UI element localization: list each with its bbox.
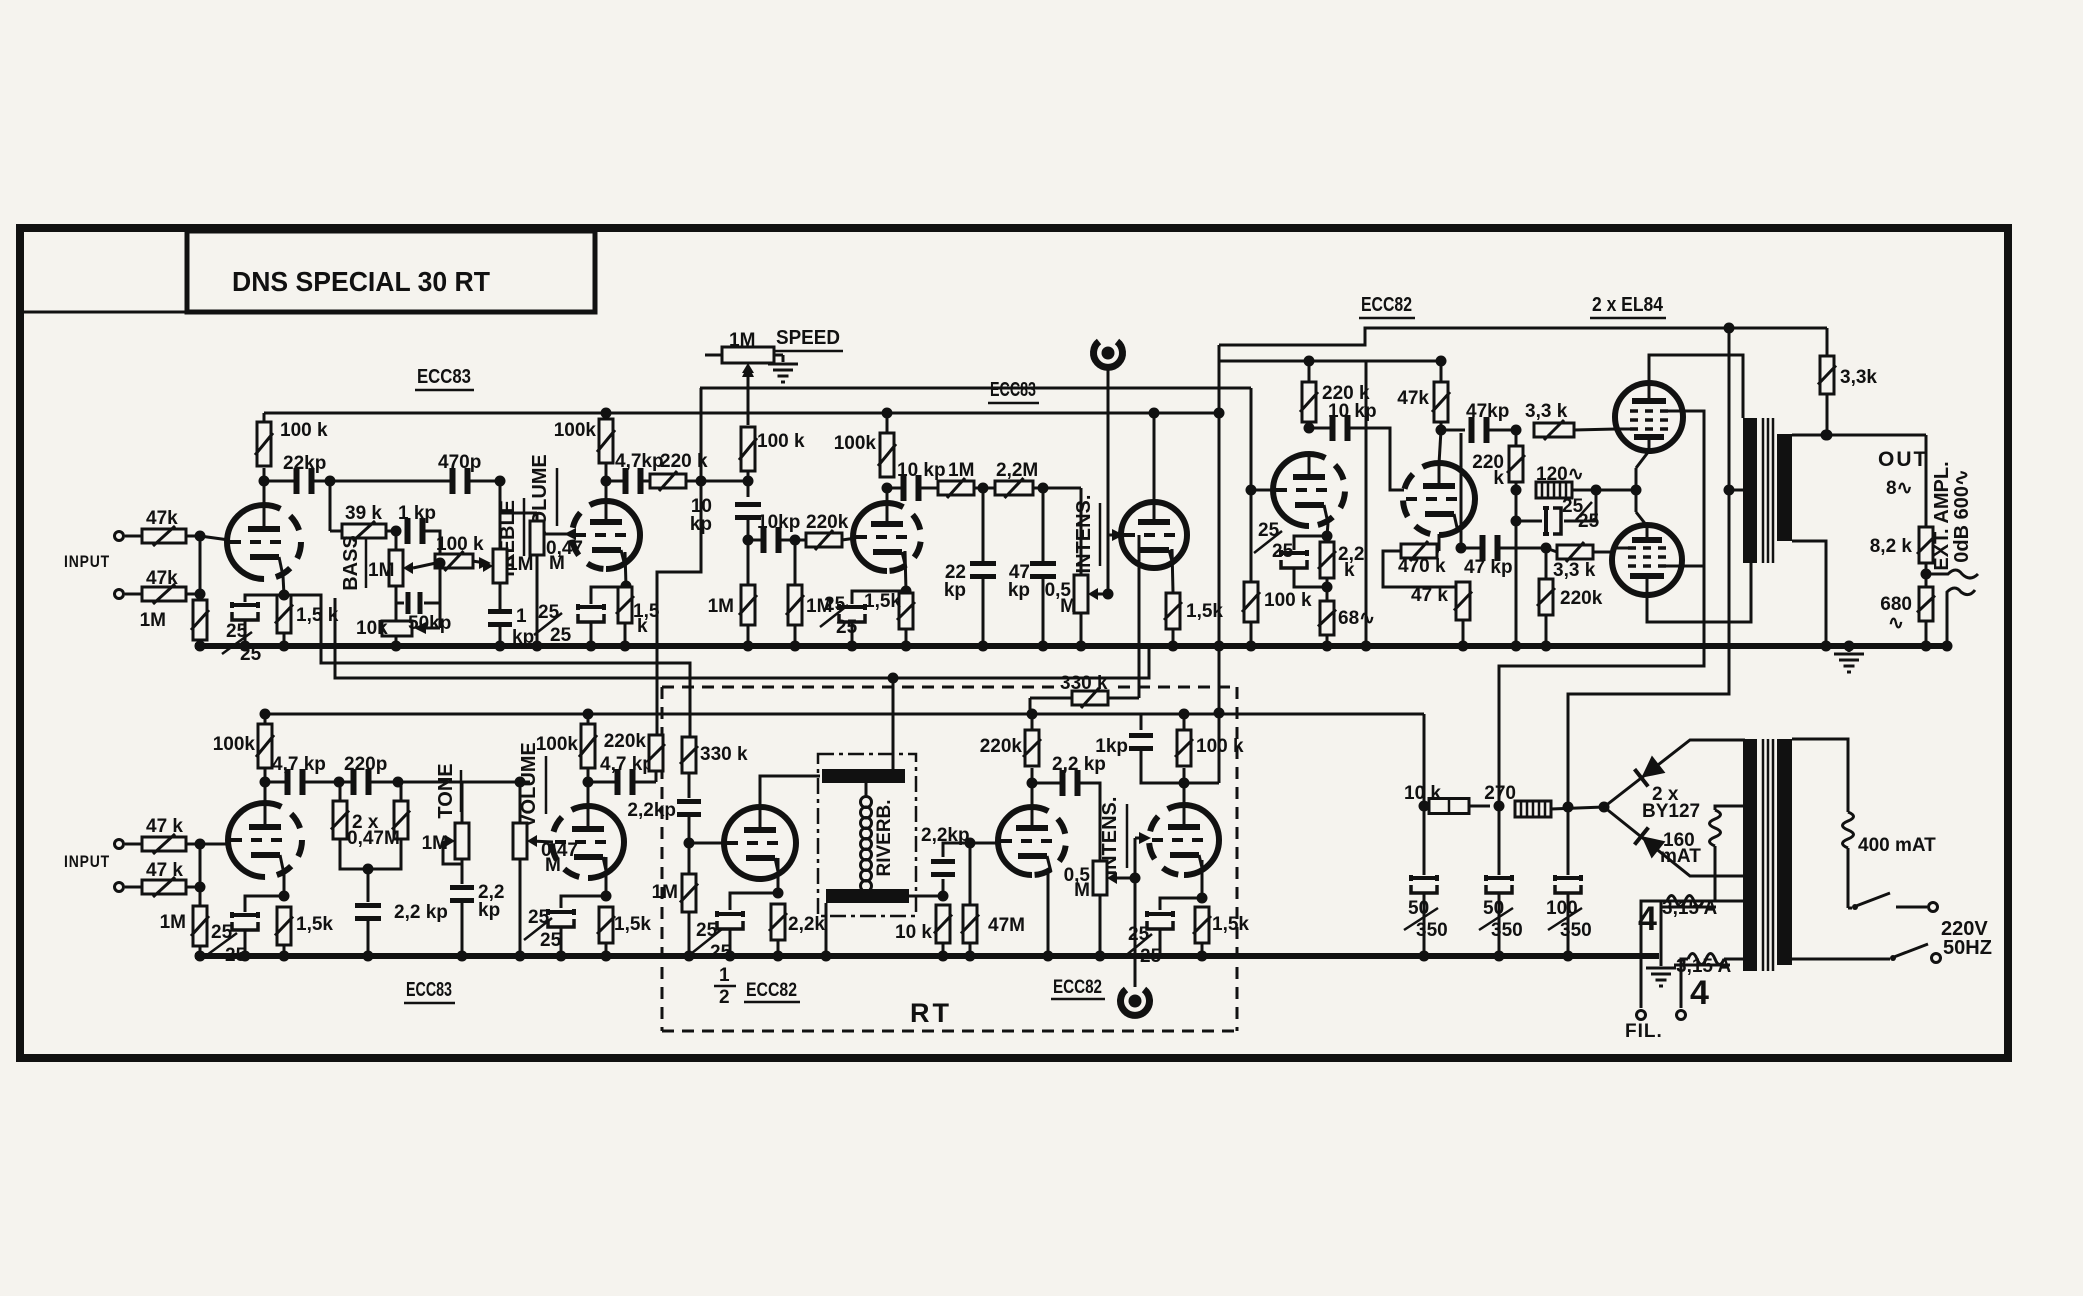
resistor 1M bbox=[920, 487, 938, 490]
svg-text:INPUT: INPUT bbox=[64, 852, 110, 871]
wire bbox=[1572, 489, 1636, 492]
resistor 47k ch1 lower bbox=[142, 584, 186, 604]
svg-text:2,2M: 2,2M bbox=[996, 460, 1038, 481]
svg-text:ECC83: ECC83 bbox=[406, 979, 452, 1001]
node bbox=[1419, 801, 1430, 812]
ext amp hook a bbox=[1926, 570, 1978, 578]
wire bbox=[1440, 422, 1443, 430]
capacitor 4,7 kp ch2 bbox=[285, 769, 306, 795]
wire secondary bottom bbox=[1792, 541, 1826, 646]
svg-text:BASS: BASS bbox=[340, 535, 362, 591]
wire bbox=[686, 480, 748, 483]
svg-text:1,5 k: 1,5 k bbox=[296, 605, 339, 626]
resistor 100k V3 plate bbox=[878, 433, 896, 477]
svg-text:1: 1 bbox=[516, 606, 527, 627]
fuse 3,15A a bbox=[1703, 900, 1745, 903]
svg-text:220k: 220k bbox=[604, 731, 647, 752]
electrolytic 25/25 V1 cathode bbox=[232, 602, 258, 620]
wire bbox=[199, 844, 202, 906]
wire V8 cathode bbox=[1327, 523, 1328, 536]
pot 0,5M INTENS ch2 bbox=[1093, 861, 1107, 895]
electrolytic 25/25 V7 bbox=[1160, 898, 1202, 910]
resistor 2,2k V5 cathode bbox=[769, 904, 787, 940]
svg-text:1M: 1M bbox=[368, 560, 394, 581]
svg-text:1M: 1M bbox=[140, 610, 166, 631]
pot TONE 1M bbox=[461, 782, 464, 822]
terminal FIL a bbox=[1637, 1011, 1646, 1020]
wire bbox=[304, 781, 339, 784]
svg-text:120∿: 120∿ bbox=[1536, 464, 1584, 485]
wire bbox=[1545, 615, 1548, 646]
wire bbox=[125, 886, 142, 889]
svg-text:1kp: 1kp bbox=[1095, 736, 1128, 757]
wire bbox=[1383, 551, 1460, 587]
capacitor 50/350 a bbox=[1423, 806, 1426, 875]
resistor 1,5k V4 cathode bbox=[1164, 593, 1182, 629]
svg-text:47k: 47k bbox=[146, 568, 178, 589]
tube V1 ECC83 ch1 input bbox=[227, 505, 264, 579]
wire to V7 grid bbox=[1134, 838, 1137, 878]
wire bbox=[1172, 629, 1175, 646]
resistor 1,5k V2 cathode bbox=[616, 587, 634, 623]
svg-text:kp: kp bbox=[478, 900, 500, 921]
wire INTENS wiper bbox=[1111, 877, 1135, 880]
diode BY127 upper bbox=[1604, 740, 1745, 807]
input jack terminal ch2 upper bbox=[115, 840, 124, 849]
svg-text:k: k bbox=[637, 616, 648, 637]
svg-text:4: 4 bbox=[1638, 900, 1657, 938]
capacitor 50/350 b bbox=[1498, 806, 1501, 875]
capacitor 470p bbox=[450, 468, 471, 494]
wire 470p line bbox=[330, 480, 450, 483]
wire bbox=[1159, 929, 1162, 956]
electrolytic 25/25 V2 cathode bbox=[591, 587, 626, 604]
wire bbox=[1183, 714, 1186, 730]
svg-text:4,7 kp: 4,7 kp bbox=[600, 754, 654, 775]
wire bbox=[1099, 895, 1102, 956]
resistor 100k ch2-V1 plate bbox=[256, 724, 274, 768]
resistor 47 k V9 lower bbox=[1454, 582, 1472, 620]
pot 0,5M INTENS ch1 bbox=[1080, 488, 1083, 576]
svg-text:25: 25 bbox=[824, 594, 846, 615]
svg-text:47kp: 47kp bbox=[1466, 401, 1509, 422]
capacitor 47kp upper bbox=[1441, 429, 1465, 432]
svg-text:47M: 47M bbox=[988, 915, 1025, 936]
wire volume tap bbox=[500, 512, 537, 515]
wire long link b bbox=[335, 598, 1149, 678]
svg-text:330 k: 330 k bbox=[700, 744, 748, 765]
wire bbox=[1925, 435, 1928, 527]
wire bbox=[605, 943, 608, 956]
svg-text:47 k: 47 k bbox=[1411, 585, 1448, 606]
resistor 47k ch1 upper bbox=[142, 526, 186, 546]
wire V6 cathode bbox=[1047, 872, 1050, 956]
svg-text:FIL.: FIL. bbox=[1625, 1021, 1663, 1042]
ground FIL bbox=[1660, 956, 1663, 966]
svg-text:47k: 47k bbox=[146, 508, 178, 529]
title box bbox=[185, 231, 189, 312]
wire long link a bbox=[284, 595, 690, 737]
wire bbox=[461, 859, 464, 884]
svg-text:50HZ: 50HZ bbox=[1943, 937, 1992, 959]
wire bbox=[780, 539, 806, 542]
wire V4 plate bbox=[1153, 413, 1156, 502]
wire bbox=[313, 480, 330, 483]
wire bbox=[283, 945, 286, 956]
svg-text:kp: kp bbox=[944, 580, 966, 601]
svg-text:BY127: BY127 bbox=[1642, 801, 1700, 822]
wire bbox=[1250, 622, 1253, 646]
svg-text:INPUT: INPUT bbox=[64, 552, 110, 571]
wire bbox=[1925, 563, 1928, 586]
wire bbox=[264, 714, 267, 724]
wire bbox=[688, 773, 691, 798]
svg-text:1,5k: 1,5k bbox=[864, 591, 901, 612]
svg-text:100 k: 100 k bbox=[757, 431, 805, 452]
wire bbox=[969, 943, 972, 956]
electrolytic 25/25 ch2-V1 cathode bbox=[232, 912, 258, 930]
svg-text:M: M bbox=[1060, 596, 1076, 617]
capacitor 10 kp bbox=[735, 502, 761, 520]
svg-text:25: 25 bbox=[1128, 924, 1150, 945]
svg-text:25: 25 bbox=[836, 617, 858, 638]
node bbox=[1103, 589, 1114, 600]
wire preamp B+ feed bbox=[1423, 714, 1426, 806]
wire bbox=[1250, 490, 1253, 582]
svg-text:100k: 100k bbox=[536, 734, 579, 755]
svg-text:8,2 k: 8,2 k bbox=[1870, 536, 1913, 557]
svg-text:INTENS.: INTENS. bbox=[1073, 495, 1095, 574]
wire bbox=[125, 593, 142, 596]
power transformer primary bar bbox=[1777, 739, 1792, 965]
wire bbox=[1031, 714, 1034, 730]
svg-text:10kp: 10kp bbox=[757, 512, 800, 533]
switch mains a bbox=[1848, 907, 1852, 910]
resistor 3,3 k lower bbox=[1557, 542, 1593, 562]
svg-text:25: 25 bbox=[1140, 946, 1162, 967]
capacitor 47kp bbox=[1042, 488, 1045, 561]
svg-text:47k: 47k bbox=[1397, 388, 1429, 409]
wire V3 plate bbox=[886, 488, 889, 504]
node bbox=[435, 558, 446, 569]
svg-text:25: 25 bbox=[550, 625, 572, 646]
svg-text:220k: 220k bbox=[806, 512, 849, 533]
RT dashed box bbox=[661, 687, 664, 1031]
svg-text:39 k: 39 k bbox=[345, 503, 382, 524]
svg-text:10k: 10k bbox=[356, 618, 388, 639]
svg-text:100: 100 bbox=[1546, 898, 1578, 919]
resistor 220k RT edge bbox=[647, 735, 665, 771]
wire bbox=[909, 895, 943, 898]
ground main bbox=[1844, 641, 1855, 652]
svg-text:10 kp: 10 kp bbox=[897, 460, 946, 481]
wire V5 cathode bbox=[777, 858, 780, 893]
svg-text:3,3 k: 3,3 k bbox=[1553, 560, 1596, 581]
wire bbox=[1469, 805, 1490, 808]
power transformer secondary bar bbox=[1743, 739, 1757, 971]
resistor 2,2 k V8 cathode bbox=[1318, 542, 1336, 578]
wire volume wiper to V2 grid bbox=[544, 533, 572, 536]
svg-text:1M: 1M bbox=[160, 912, 186, 933]
wire bbox=[688, 912, 691, 956]
tube V8 ECC82 a bbox=[1273, 454, 1309, 526]
resistor 100k V1 plate load bbox=[255, 422, 273, 466]
wire bbox=[1201, 943, 1204, 956]
wire reverb feed bbox=[892, 678, 895, 772]
wire bbox=[519, 859, 522, 956]
svg-text:1,5k: 1,5k bbox=[1212, 914, 1249, 935]
wire bbox=[1141, 751, 1184, 783]
wire bbox=[199, 946, 202, 956]
wire bbox=[729, 929, 732, 956]
svg-text:470p: 470p bbox=[438, 452, 481, 473]
wire INTENS wiper ch1 bbox=[1092, 593, 1108, 596]
node bbox=[391, 526, 402, 537]
capacitor 22kp bbox=[982, 488, 985, 561]
svg-text:RT: RT bbox=[910, 998, 952, 1028]
electrolytic 25/25 V5 bbox=[730, 893, 778, 910]
ext amp hook b bbox=[1947, 588, 1975, 646]
wire bbox=[886, 413, 889, 433]
electrolytic 25/25 EL84 bias bbox=[1515, 490, 1518, 521]
tube V2 ECC83 ch2 bbox=[588, 806, 624, 878]
wire bbox=[1462, 620, 1465, 646]
pot VOLUME 0,47M ch1 bbox=[530, 521, 544, 555]
wire bbox=[587, 714, 590, 724]
resistor 220k bbox=[642, 480, 652, 483]
wire bbox=[605, 413, 608, 419]
svg-text:100k: 100k bbox=[554, 420, 597, 441]
terminal FIL b bbox=[1677, 1011, 1686, 1020]
svg-text:kp: kp bbox=[690, 514, 712, 535]
wire bbox=[1326, 578, 1329, 600]
svg-text:220k: 220k bbox=[980, 736, 1023, 757]
tube V4 ECC83 bbox=[1121, 502, 1187, 568]
svg-text:100 k: 100 k bbox=[1264, 590, 1312, 611]
switch mains b bbox=[1792, 958, 1890, 961]
wire bbox=[470, 480, 500, 483]
svg-text:3,3k: 3,3k bbox=[1840, 367, 1877, 388]
wire cathode bbox=[283, 874, 286, 896]
wire bbox=[199, 536, 202, 600]
svg-text:25: 25 bbox=[1578, 511, 1600, 532]
resistor 100k tone bbox=[435, 551, 473, 571]
resistor 47k V9 plate bbox=[1440, 361, 1443, 382]
svg-text:100 k: 100 k bbox=[1196, 736, 1244, 757]
resistor 220k bias lower bbox=[1545, 548, 1548, 579]
resistor 680 bbox=[1917, 587, 1935, 621]
svg-text:1: 1 bbox=[719, 965, 730, 986]
resistor 1M grid leak ch2 bbox=[191, 906, 209, 946]
svg-text:47 k: 47 k bbox=[146, 860, 183, 881]
resistor 220k V6 plate bbox=[1023, 730, 1041, 766]
svg-text:680: 680 bbox=[1880, 594, 1912, 615]
wire bbox=[424, 531, 440, 563]
wire bbox=[634, 781, 656, 784]
svg-text:100 k: 100 k bbox=[280, 420, 328, 441]
wire EL84 upper cathode bbox=[1636, 451, 1649, 468]
wire cross bbox=[1365, 361, 1368, 646]
svg-text:2: 2 bbox=[719, 987, 730, 1008]
wire bbox=[1349, 428, 1404, 490]
capacitor 1 kp treble bottom bbox=[499, 583, 502, 610]
wire bbox=[283, 633, 286, 646]
wire bbox=[1499, 547, 1546, 550]
wire bbox=[1326, 635, 1329, 646]
reverb transformer primary bar bbox=[822, 769, 905, 783]
wire bbox=[1294, 568, 1327, 587]
wire B+ jog bbox=[1219, 328, 1827, 345]
wire bass wiper bbox=[413, 563, 436, 568]
svg-text:DNS SPECIAL 30 RT: DNS SPECIAL 30 RT bbox=[232, 266, 490, 297]
pot VOLUME 0,47M ch2 bbox=[519, 782, 522, 823]
resistor 47M RT bbox=[969, 843, 972, 905]
wire bbox=[705, 354, 722, 357]
reverb transformer secondary bar bbox=[826, 889, 909, 903]
input jack terminal ch2 lower bbox=[115, 883, 124, 892]
svg-text:1 kp: 1 kp bbox=[398, 503, 436, 524]
resistor 68 ohm bbox=[1318, 601, 1336, 635]
wire bbox=[370, 781, 398, 784]
svg-text:25: 25 bbox=[1272, 541, 1294, 562]
svg-text:ECC82: ECC82 bbox=[1361, 294, 1412, 316]
wire bbox=[1080, 613, 1083, 646]
wire to jack bbox=[1134, 878, 1137, 987]
wire bbox=[125, 843, 142, 846]
wire bbox=[386, 530, 400, 533]
tube V3 ECC83 tremolo bbox=[853, 503, 887, 571]
wire V1 plate bbox=[263, 468, 266, 505]
wire bbox=[186, 843, 200, 846]
svg-text:ECC83: ECC83 bbox=[990, 379, 1036, 401]
capacitor 2,2 kp ch2 filter bbox=[355, 903, 381, 921]
wire tone wiper bbox=[443, 841, 462, 864]
wire screens bbox=[1499, 411, 1704, 806]
wire bbox=[264, 480, 295, 483]
wire bbox=[367, 921, 370, 956]
wire bbox=[943, 843, 1000, 857]
resistor 220k tremolo bbox=[806, 530, 842, 550]
resistor 1,5k V7 cathode bbox=[1193, 907, 1211, 943]
wire bbox=[624, 623, 627, 646]
wire plate jog bbox=[1184, 782, 1219, 785]
svg-text:ECC82: ECC82 bbox=[746, 980, 797, 1001]
wire bbox=[186, 593, 200, 596]
resistor 1M tremolo b bbox=[794, 540, 797, 585]
fuse 160 mAT bbox=[1715, 806, 1745, 810]
svg-text:25: 25 bbox=[1258, 520, 1280, 541]
svg-text:25: 25 bbox=[540, 930, 562, 951]
svg-text:470 k: 470 k bbox=[1398, 556, 1446, 577]
resistor 270 PS bbox=[1515, 801, 1551, 817]
svg-text:220p: 220p bbox=[344, 754, 387, 775]
wire bbox=[426, 627, 440, 630]
svg-text:100k: 100k bbox=[213, 734, 256, 755]
tube V9 ECC82 b bbox=[1439, 463, 1475, 535]
resistor 47 k ch2 lower bbox=[142, 877, 186, 897]
wire to V3 grid bbox=[842, 538, 856, 540]
svg-text:SPEED: SPEED bbox=[776, 327, 840, 349]
svg-text:2,2 kp: 2,2 kp bbox=[394, 902, 448, 923]
wire bbox=[1488, 429, 1516, 432]
resistor 1,5k ch2-V1 cathode bbox=[275, 907, 293, 945]
resistor 330k reverb mix bbox=[1030, 697, 1072, 700]
svg-text:kp: kp bbox=[512, 627, 534, 648]
svg-text:400 mAT: 400 mAT bbox=[1858, 835, 1936, 856]
wire V4 cathode bbox=[1172, 549, 1173, 592]
reverb tank box bbox=[818, 754, 916, 916]
wire bbox=[1515, 521, 1518, 646]
resistor 120 ohm hatched bbox=[1536, 482, 1572, 498]
resistor 1,5k ch2-V2 cathode bbox=[597, 907, 615, 943]
wire V7 plate bbox=[1183, 768, 1186, 805]
resistor 100k V2 plate load bbox=[597, 419, 615, 463]
wire bbox=[747, 471, 750, 497]
svg-text:100k: 100k bbox=[834, 433, 877, 454]
wire to EL84 grid 2 bbox=[1593, 551, 1613, 554]
svg-text:mAT: mAT bbox=[1660, 846, 1701, 867]
wire bbox=[1551, 807, 1604, 809]
wire screens lower bbox=[1680, 565, 1704, 568]
svg-text:0,47M: 0,47M bbox=[347, 828, 400, 849]
fuse 3,15A b bbox=[1724, 958, 1745, 961]
reverb coil bbox=[861, 797, 872, 892]
wire bbox=[974, 487, 983, 490]
output transformer core bbox=[1763, 418, 1773, 563]
svg-text:2,2kp: 2,2kp bbox=[627, 800, 676, 821]
svg-text:k: k bbox=[1344, 560, 1355, 581]
wire V5 plate bbox=[760, 776, 820, 807]
wire bbox=[777, 940, 780, 956]
svg-text:8∿: 8∿ bbox=[1886, 478, 1913, 499]
wire bbox=[199, 640, 202, 646]
jack reverb footswitch bbox=[1121, 990, 1150, 1016]
svg-text:ECC82: ECC82 bbox=[1053, 977, 1102, 998]
svg-text:22kp: 22kp bbox=[283, 453, 326, 474]
wire bbox=[536, 555, 539, 646]
wire signal to V8 bbox=[700, 387, 1251, 390]
wire bbox=[1308, 422, 1311, 428]
wire bbox=[1826, 394, 1829, 435]
input jack terminal ch1 upper bbox=[115, 532, 124, 541]
svg-text:ECC83: ECC83 bbox=[417, 366, 471, 388]
wire cathode bbox=[605, 857, 608, 896]
HT rail channel 1 bbox=[264, 412, 1217, 415]
svg-text:2,2 kp: 2,2 kp bbox=[1052, 754, 1106, 775]
svg-text:47 kp: 47 kp bbox=[1464, 557, 1513, 578]
svg-text:25: 25 bbox=[538, 602, 560, 623]
wire bbox=[186, 535, 200, 538]
tube V6 ECC82 reverb amp bbox=[998, 807, 1032, 875]
wire bbox=[892, 678, 895, 769]
resistor 1,5k V3 cathode bbox=[897, 593, 915, 629]
capacitor 47 kp lower bbox=[1460, 433, 1463, 548]
wire bbox=[125, 535, 142, 538]
svg-text:1,5k: 1,5k bbox=[614, 914, 651, 935]
capacitor 2,2kp RT in bbox=[677, 799, 701, 817]
svg-text:TONE: TONE bbox=[435, 763, 457, 818]
resistor 0,47M a bbox=[339, 782, 342, 800]
svg-text:220k: 220k bbox=[1560, 588, 1603, 609]
svg-text:M: M bbox=[1074, 880, 1090, 901]
wire V1 cathode bbox=[283, 576, 284, 595]
capacitor 1kp bass bottom bbox=[395, 586, 398, 603]
resistor 100 k V7 plate bbox=[1175, 730, 1193, 766]
wire bbox=[851, 622, 854, 646]
capacitor 2,2 kp tone bbox=[450, 885, 474, 903]
capacitor 4,7 kp ch2 coupling bbox=[588, 781, 616, 784]
resistor 0,47M b bbox=[400, 782, 403, 800]
